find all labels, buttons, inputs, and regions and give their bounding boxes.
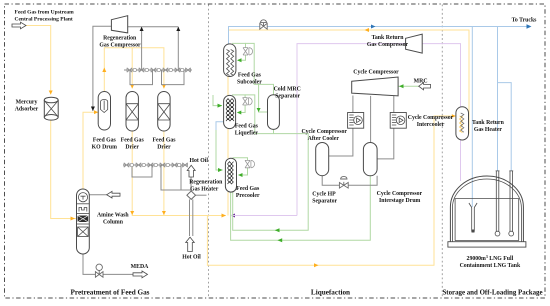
compressor: Tank Return Gas Compressor	[406, 34, 423, 53]
svg-text:Cycle Compressor: Cycle Compressor	[301, 129, 347, 135]
vessel: Cold MRC Separator	[268, 95, 280, 130]
exchanger: Feed Gas Liquefier	[224, 95, 236, 128]
svg-text:Intercooler: Intercooler	[417, 122, 445, 128]
svg-text:Drier: Drier	[125, 145, 139, 151]
tank: 29000m3 LNG Full Containment Tank	[448, 176, 526, 247]
label: Amine Wash Column	[97, 213, 129, 226]
vessel: Feed Gas Drier 2	[158, 92, 170, 132]
svg-text:Cycle Compressor: Cycle Compressor	[377, 191, 423, 197]
block arrow: feed gas inlet	[12, 22, 26, 29]
svg-text:Tank Return: Tank Return	[372, 35, 405, 41]
valve: HP separator letdown valve	[339, 176, 348, 188]
cooler: Cycle Compressor After Cooler	[348, 113, 364, 129]
svg-text:Feed Gas: Feed Gas	[121, 138, 145, 144]
wire: MRC makeup into cycle compressor (green)	[398, 84, 419, 88]
wire: regen compressor suction header (gray)	[128, 27, 181, 70]
wire: tank dip tube 2 riser (blue)	[498, 83, 512, 171]
wire: drier switching manifold lower loops (gray)	[123, 165, 191, 190]
label: To Trucks	[512, 18, 538, 24]
label: MRC	[414, 79, 428, 85]
label: Feed Gas Subcooler	[237, 73, 262, 86]
svg-text:Hot Oil: Hot Oil	[182, 255, 201, 261]
svg-text:Gas Compressor: Gas Compressor	[367, 42, 409, 48]
exchanger: Feed Gas Subcooler	[224, 44, 236, 77]
svg-text:Gas Heater: Gas Heater	[190, 187, 219, 193]
wire: regen compressor discharge to KO drum (gray)	[91, 26, 112, 111]
label: Feed Gas Drier 2	[152, 138, 176, 151]
wire: cold MRC sep bottoms loop (green)	[233, 129, 309, 232]
valve row: drier outlet manifold (lower)	[124, 163, 188, 167]
wire: hot oil return bottom header (yellow)	[207, 116, 456, 267]
label: Feed Gas KO Drum	[92, 138, 117, 151]
svg-text:Cold MRC: Cold MRC	[274, 87, 301, 93]
label: LNG tank capacity	[460, 255, 521, 269]
heat exchanger: Regeneration Gas Heater (diamond)	[187, 191, 196, 199]
compressor: Cycle Compressor	[352, 77, 398, 96]
vessel: Cycle Compressor Interstage Drum	[363, 143, 377, 176]
vessel: Feed Gas KO Drum	[98, 92, 110, 131]
svg-text:Mercury: Mercury	[16, 100, 38, 106]
wire: drier switching manifold upper loops (gray)	[124, 70, 192, 85]
svg-text:After Cooler: After Cooler	[308, 136, 340, 142]
wire: exchanger train vertical (yellow)	[226, 69, 230, 216]
valve: liquefier MRC letdown	[243, 98, 253, 105]
section divider: Liquefaction | Storage	[441, 5, 443, 298]
column: Amine Wash Column	[77, 189, 90, 254]
exchanger: Feed Gas Precooler	[225, 158, 236, 192]
vessel: Mercury Adsorber	[44, 97, 58, 120]
block arrow: lean amine inlet	[107, 191, 120, 198]
label: Regeneration Gas Compressor	[99, 36, 141, 49]
wire: liquefier BOG stub (blue)	[216, 122, 224, 130]
wire: drier bottoms header to junction (yellow)	[130, 131, 226, 218]
wire: liquefier valve loop (green)	[232, 95, 255, 134]
wire: feed gas inlet to mercury adsorber (yellow)	[26, 26, 53, 95]
wire: regen gas from top header down to tank return gas heater (yellow)	[229, 28, 470, 133]
label: Tank Return Gas Compressor	[367, 35, 409, 48]
svg-text:Subcooler: Subcooler	[237, 80, 262, 86]
exchanger: Tank Return Gas Heater	[456, 107, 469, 140]
wire: tank fill line (blue)	[471, 27, 473, 208]
section divider: Pretreatment | Liquefaction	[208, 5, 210, 298]
label: Regeneration Gas Heater	[189, 180, 223, 193]
svg-text:MEDA: MEDA	[131, 264, 150, 270]
label: Feed Gas Drier 1	[121, 138, 145, 151]
block arrow: hot oil supply (upper)	[187, 165, 195, 177]
svg-text:Feed Gas: Feed Gas	[93, 138, 117, 144]
label: Mercury Adsorber	[15, 100, 39, 113]
svg-text:Feed Gas from Upstream: Feed Gas from Upstream	[15, 10, 75, 16]
wire: KO drum overhead to driers (yellow)	[102, 48, 166, 92]
label: Cycle Compressor Intercooler	[408, 115, 454, 128]
svg-text:Feed Gas: Feed Gas	[235, 124, 259, 130]
label: MEDA	[131, 264, 150, 270]
block arrow: hot oil supply (lower)	[186, 237, 195, 251]
wire: amine column overhead to KO drum (yellow)	[83, 110, 98, 189]
svg-text:Hot Oil: Hot Oil	[190, 158, 209, 164]
svg-text:MRC: MRC	[414, 79, 428, 85]
tank dip tube 2	[509, 171, 514, 236]
svg-text:Feed Gas: Feed Gas	[236, 186, 260, 192]
wire: MRC into precooler left (green)	[216, 130, 223, 172]
svg-text:Cycle Compressor: Cycle Compressor	[408, 115, 454, 121]
wire: HP separator bottoms letdown line (gray)	[322, 176, 377, 186]
wire: amine column bottoms to MEDA (gray)	[83, 254, 133, 274]
svg-text:Interstage Drum: Interstage Drum	[379, 198, 421, 204]
vessel: Feed Gas Drier 1	[126, 92, 138, 132]
svg-text:Central Processing Plant: Central Processing Plant	[15, 17, 73, 23]
svg-text:Storage and Off-Loading Packag: Storage and Off-Loading Package	[442, 290, 542, 297]
svg-text:Precooler: Precooler	[236, 193, 260, 199]
wire: cycle compressor interstage feed (gray)	[370, 96, 372, 143]
svg-text:Liquefier: Liquefier	[235, 131, 259, 137]
valve row: drier inlet manifold (upper)	[127, 68, 191, 72]
svg-text:Cycle Compressor: Cycle Compressor	[353, 70, 399, 76]
svg-text:To Trucks: To Trucks	[512, 18, 538, 24]
wire: tank dip tube 1 riser (blue)	[497, 27, 499, 171]
wire: BOG main header to trucks (blue)	[229, 24, 532, 44]
label: Cycle Compressor	[353, 70, 399, 76]
block arrow: MEDA outlet	[133, 271, 148, 278]
label: Tank Return Gas Heater	[472, 120, 505, 133]
block arrow: MRC makeup	[419, 83, 431, 90]
wire: lean amine inlet line (gray)	[89, 194, 107, 196]
wire: subcooler to cold MRC separator (green)	[246, 43, 274, 94]
label: Feed Gas Precooler	[236, 186, 260, 199]
compressor: Regeneration Gas Compressor	[111, 16, 127, 33]
tank dip tube 1	[495, 171, 500, 236]
svg-text:Regeneration: Regeneration	[189, 180, 223, 186]
svg-text:Column: Column	[103, 220, 124, 226]
label: Feed Gas Liquefier	[235, 124, 259, 137]
svg-text:Tank Return: Tank Return	[472, 120, 505, 126]
wire: cycle compressor stage 2 via intercooler to drum (gray)	[377, 96, 394, 159]
svg-text:Feed Gas: Feed Gas	[152, 138, 176, 144]
wire: subcooler valve loop (green)	[232, 43, 246, 62]
svg-text:Separator: Separator	[275, 94, 300, 100]
valve: BOG header control valve	[260, 20, 267, 29]
valve: amine bottoms control valve	[95, 264, 103, 277]
label: Cycle HP Separator	[312, 192, 337, 205]
wire: interstage drum MRC return loop (green)	[231, 176, 371, 243]
wire: cold MRC separator side feed (green)	[257, 84, 268, 112]
cooler: Cycle Compressor Intercooler	[390, 113, 406, 129]
valve: subcooler MRC letdown	[243, 48, 253, 55]
svg-text:Cycle HP: Cycle HP	[312, 192, 336, 198]
svg-text:Containment LNG Tank: Containment LNG Tank	[460, 263, 521, 269]
label: Cold MRC Separator	[274, 87, 301, 100]
svg-text:29000m3 LNG Full: 29000m3 LNG Full	[467, 255, 514, 262]
svg-text:Separator: Separator	[312, 199, 337, 205]
svg-text:Gas Heater: Gas Heater	[474, 127, 503, 133]
wire: cycle compressor stage 1 to after cooler and HP separator (gray)	[329, 96, 353, 157]
label: Hot Oil (upper)	[190, 158, 209, 164]
label: Cycle Compressor Interstage Drum	[377, 191, 423, 204]
svg-text:Adsorber: Adsorber	[15, 107, 39, 113]
vessel: Cycle HP Separator	[316, 143, 329, 176]
label: Hot Oil (lower)	[182, 255, 201, 261]
wire: hot regen gas into tank return gas heater (yellow arrow)	[452, 114, 456, 118]
wire: mercury adsorber to amine wash column (yellow)	[51, 120, 77, 220]
svg-text:Liquefaction: Liquefaction	[311, 289, 350, 297]
svg-text:Feed Gas: Feed Gas	[238, 73, 262, 79]
tank internal fill pipe	[469, 203, 477, 233]
svg-text:Drier: Drier	[157, 145, 171, 151]
wire: hot oil supply/return at regen heater (gray)	[190, 177, 207, 236]
wire: tank return compressor discharge (purple)	[231, 44, 461, 218]
svg-text:Pretreatment of Feed Gas: Pretreatment of Feed Gas	[71, 289, 150, 297]
valve: precooler MRC letdown	[245, 160, 255, 167]
label: feed gas source note	[15, 10, 75, 23]
svg-text:Amine Wash: Amine Wash	[97, 213, 129, 219]
wire: precooler valve loop (green)	[233, 158, 248, 177]
svg-text:Regeneration: Regeneration	[103, 36, 137, 42]
svg-text:KO Drum: KO Drum	[92, 145, 117, 151]
label: Cycle Compressor After Cooler	[301, 129, 347, 142]
wire: MRC into liquefier left (green)	[213, 95, 222, 108]
svg-text:Gas Compressor: Gas Compressor	[99, 43, 141, 49]
